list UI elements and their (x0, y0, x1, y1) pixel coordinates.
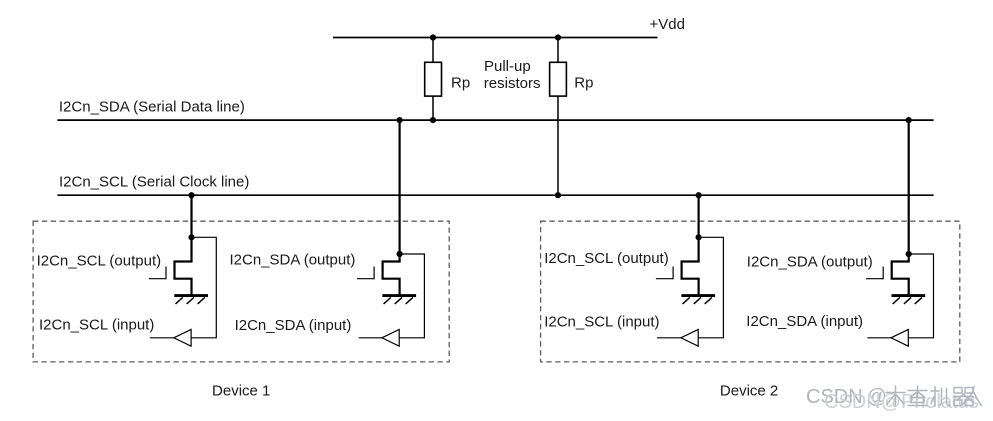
svg-text:I2Cn_SCL (Serial Clock line): I2Cn_SCL (Serial Clock line) (59, 174, 249, 191)
svg-text:I2Cn_SDA (Serial Data line): I2Cn_SDA (Serial Data line) (59, 99, 245, 116)
svg-text:Pull-up: Pull-up (484, 58, 531, 75)
svg-text:I2Cn_SCL (output): I2Cn_SCL (output) (37, 252, 162, 269)
svg-text:I2Cn_SDA (output): I2Cn_SDA (output) (230, 252, 356, 269)
svg-text:I2Cn_SDA (input): I2Cn_SDA (input) (235, 317, 352, 334)
svg-text:+Vdd: +Vdd (650, 16, 685, 33)
svg-text:I2Cn_SDA (input): I2Cn_SDA (input) (746, 313, 863, 330)
svg-text:I2Cn_SCL (output): I2Cn_SCL (output) (544, 250, 669, 267)
svg-text:Rp: Rp (451, 74, 470, 91)
svg-text:resistors: resistors (484, 75, 541, 92)
svg-text:Device 2: Device 2 (720, 383, 778, 400)
svg-text:I2Cn_SCL (input): I2Cn_SCL (input) (39, 316, 154, 333)
svg-text:I2Cn_SCL (input): I2Cn_SCL (input) (544, 314, 659, 331)
svg-text:I2Cn_SDA (output): I2Cn_SDA (output) (747, 254, 873, 271)
svg-text:Device 1: Device 1 (212, 383, 270, 400)
svg-text:Rp: Rp (574, 74, 593, 91)
